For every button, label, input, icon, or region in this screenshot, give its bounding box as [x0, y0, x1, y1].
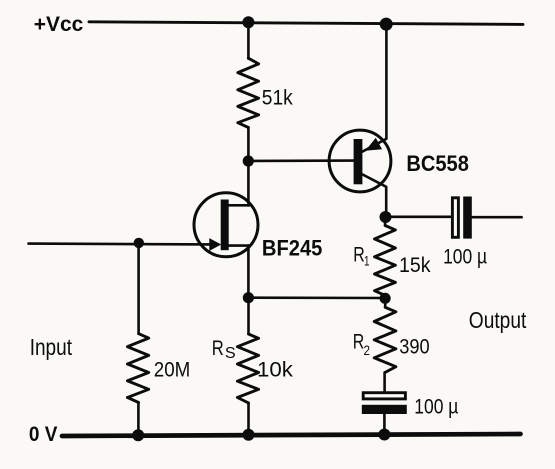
wire Vcc to BC558 emitter — [362, 24, 386, 152]
transistor Q2 BC558 emitter arrow — [365, 138, 382, 151]
svg-text:20M: 20M — [154, 359, 191, 382]
svg-text:Input: Input — [30, 334, 73, 360]
transistor Q1 BF245 gate arrow — [209, 238, 221, 251]
wire 20M to 0V — [137, 403, 140, 436]
svg-text:+Vcc: +Vcc — [34, 13, 84, 36]
svg-text:0 V: 0 V — [29, 423, 58, 446]
wire R1 to node E — [384, 295, 387, 298]
wire 51k to node C — [247, 128, 250, 162]
node G junction 20M/0V — [132, 429, 144, 441]
wire drain node down to JFET drain — [247, 161, 250, 205]
svg-text:10k: 10k — [257, 359, 293, 382]
wire collector node to output cap — [386, 216, 452, 219]
wire node J to Rs — [247, 298, 250, 334]
resistor R2 390 — [374, 307, 396, 372]
resistor 51k — [238, 58, 259, 127]
transistor Q2 BC558 circle — [329, 130, 391, 192]
wire JFET drain stub — [229, 204, 250, 207]
svg-text:2: 2 — [364, 342, 371, 358]
wire BC558 collector — [362, 174, 386, 217]
node F junction C2/0V — [378, 429, 390, 441]
svg-text:Output: Output — [469, 307, 527, 333]
resistor 20M — [127, 334, 148, 403]
svg-text:R: R — [353, 244, 365, 267]
capacitor C2 100u top plate (hollow) — [363, 393, 405, 399]
wire Rs to 0V — [247, 403, 250, 435]
node I junction input/20M — [134, 238, 144, 248]
resistor Rs 10k — [237, 334, 258, 403]
wire output cap to right — [472, 216, 522, 219]
svg-text:BC558: BC558 — [406, 151, 469, 176]
node J junction source/Rs/feedback — [243, 292, 254, 303]
node E junction R1/R2/feedback — [380, 293, 391, 304]
wire JFET source stub — [229, 244, 249, 247]
svg-text:S: S — [225, 345, 236, 362]
transistor Q1 BF245 circle — [194, 193, 258, 257]
wire input node down to 20M — [137, 243, 140, 334]
wire base of BC558 — [248, 159, 353, 162]
svg-text:BF245: BF245 — [262, 235, 323, 260]
wire Vcc to 51k — [247, 22, 250, 58]
svg-text:51k: 51k — [262, 87, 293, 110]
wire node E to R2 — [384, 298, 387, 307]
svg-text:100 µ: 100 µ — [414, 396, 458, 419]
wire node J to node E — [249, 296, 386, 299]
svg-text:390: 390 — [399, 336, 430, 359]
capacitor C1 100u left plate (hollow) — [452, 198, 458, 238]
transistor Q1 BF245 channel bar — [221, 200, 229, 251]
capacitor C1 100u right plate (solid) — [463, 197, 472, 239]
node B junction Vcc/emitter — [380, 18, 393, 31]
svg-text:R: R — [212, 337, 224, 360]
svg-text:15k: 15k — [399, 254, 431, 277]
svg-text:100 µ: 100 µ — [443, 246, 487, 269]
wire input gate line — [29, 242, 212, 245]
capacitor C2 100u bottom plate (solid) — [362, 405, 407, 414]
wire 0V bottom rail — [62, 434, 521, 436]
wire JFET source down to node J — [247, 246, 250, 298]
wire R2 to C2 — [383, 372, 386, 391]
resistor R1 15k — [375, 226, 396, 296]
node D junction collector/output/R1 — [380, 211, 392, 223]
wire C2 to 0V — [383, 414, 386, 435]
transistor Q2 BC558 base bar — [354, 139, 363, 184]
wire +Vcc top rail — [89, 22, 523, 25]
node C junction 51k/base/drain — [243, 155, 254, 166]
node A junction Vcc/51k — [242, 16, 254, 28]
node H junction Rs/0V — [243, 429, 255, 441]
wire node D to R1 — [384, 217, 387, 226]
svg-text:1: 1 — [364, 252, 370, 268]
